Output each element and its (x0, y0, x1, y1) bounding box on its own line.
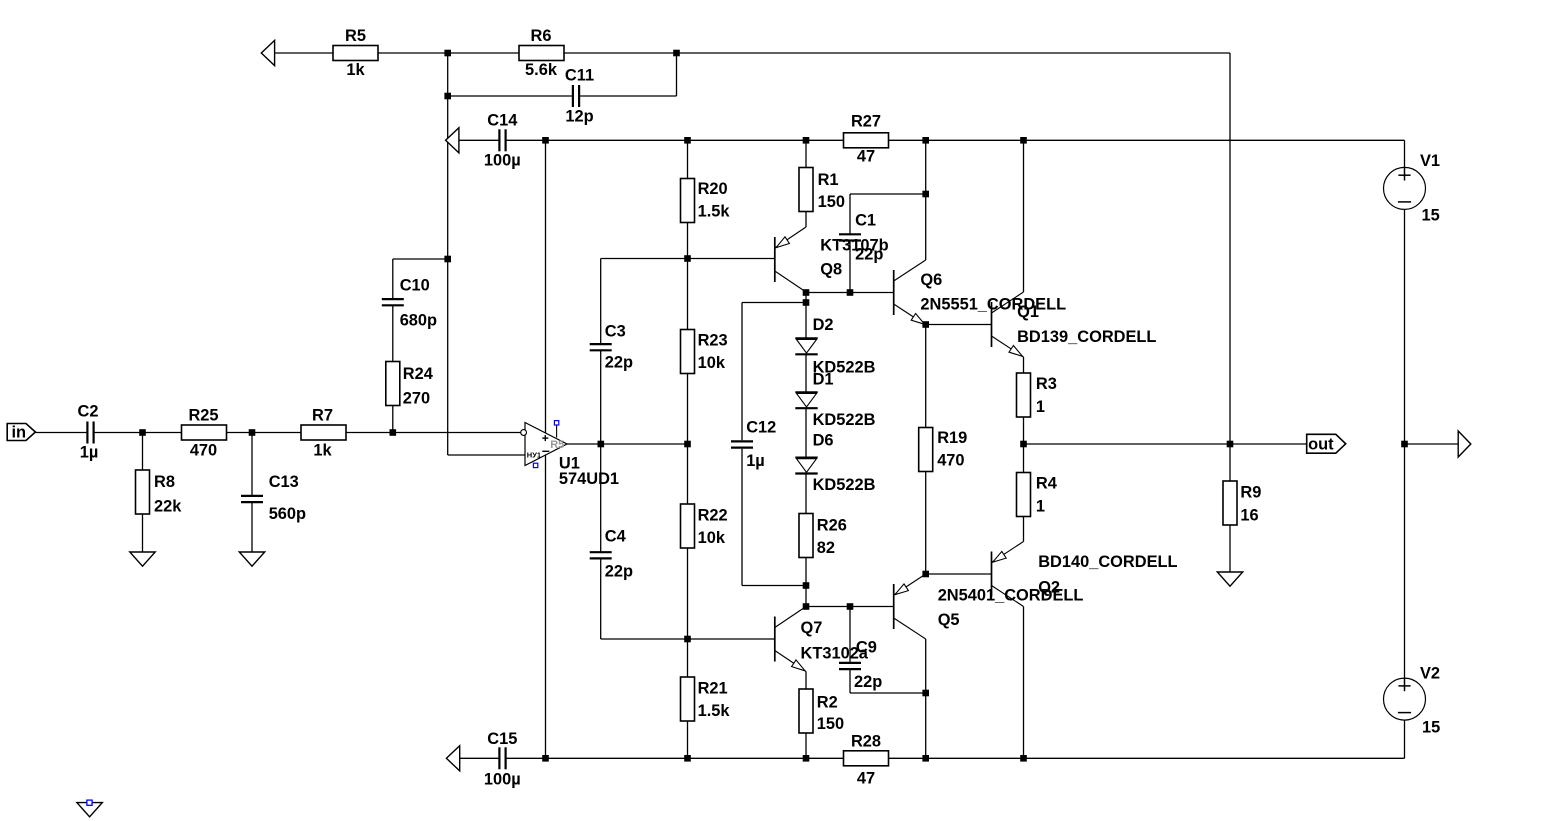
svg-text:V2: V2 (1420, 665, 1440, 683)
svg-text:C15: C15 (487, 730, 517, 748)
svg-text:C12: C12 (746, 419, 776, 437)
svg-text:C4: C4 (605, 528, 627, 546)
svg-text:R24: R24 (403, 365, 434, 383)
svg-text:R23: R23 (698, 332, 728, 350)
svg-text:R25: R25 (188, 407, 218, 425)
svg-text:2N5401_CORDELL: 2N5401_CORDELL (938, 587, 1084, 605)
svg-text:C13: C13 (269, 473, 299, 491)
svg-text:R5: R5 (345, 27, 366, 45)
svg-text:100µ: 100µ (484, 152, 521, 170)
svg-text:C14: C14 (487, 112, 518, 130)
svg-text:47: 47 (857, 770, 875, 788)
svg-text:R8: R8 (154, 473, 175, 491)
svg-text:R22: R22 (698, 507, 728, 525)
svg-text:R1: R1 (818, 171, 839, 189)
svg-text:82: 82 (817, 539, 835, 557)
svg-text:R9: R9 (1240, 484, 1261, 502)
svg-text:R26: R26 (817, 517, 847, 535)
svg-text:D6: D6 (813, 432, 834, 450)
svg-text:Q1: Q1 (1017, 303, 1039, 321)
svg-text:22p: 22p (605, 354, 633, 372)
svg-text:R7: R7 (312, 407, 333, 425)
svg-text:C3: C3 (605, 323, 626, 341)
svg-text:R21: R21 (698, 680, 728, 698)
svg-text:47: 47 (857, 148, 875, 166)
svg-text:Q8: Q8 (820, 261, 842, 279)
svg-text:D1: D1 (813, 371, 834, 389)
svg-text:BD140_CORDELL: BD140_CORDELL (1038, 553, 1177, 571)
svg-text:1: 1 (1036, 498, 1045, 516)
svg-text:470: 470 (937, 452, 964, 470)
svg-text:KT3102a: KT3102a (801, 645, 869, 663)
svg-text:1µ: 1µ (80, 444, 99, 462)
svg-text:R3: R3 (1036, 375, 1057, 393)
svg-text:10k: 10k (698, 354, 726, 372)
svg-text:R6: R6 (531, 27, 552, 45)
svg-text:150: 150 (817, 715, 844, 733)
svg-text:R20: R20 (698, 180, 728, 198)
svg-text:R27: R27 (851, 113, 881, 131)
svg-text:KD522B: KD522B (813, 476, 876, 494)
svg-text:R19: R19 (937, 429, 967, 447)
svg-text:1: 1 (1036, 398, 1045, 416)
svg-text:1k: 1k (346, 61, 365, 79)
svg-text:560p: 560p (269, 505, 306, 523)
svg-text:270: 270 (403, 390, 430, 408)
svg-text:15: 15 (1422, 207, 1440, 225)
svg-text:574UD1: 574UD1 (559, 470, 619, 488)
svg-text:НУ1: НУ1 (527, 451, 541, 460)
svg-text:1µ: 1µ (746, 452, 765, 470)
svg-text:V1: V1 (1420, 152, 1440, 170)
svg-text:C11: C11 (565, 67, 594, 85)
svg-text:1.5k: 1.5k (698, 203, 731, 221)
svg-text:100µ: 100µ (484, 771, 521, 789)
svg-text:R28: R28 (851, 733, 881, 751)
svg-text:R4: R4 (1036, 475, 1058, 493)
svg-text:22p: 22p (605, 563, 633, 581)
svg-text:R5: R5 (550, 439, 564, 451)
svg-text:12p: 12p (565, 108, 593, 126)
svg-text:150: 150 (818, 193, 845, 211)
svg-text:Q7: Q7 (801, 619, 823, 637)
svg-text:Q2: Q2 (1038, 579, 1060, 597)
svg-text:22p: 22p (854, 673, 882, 691)
svg-text:22k: 22k (154, 498, 182, 516)
svg-text:KD522B: KD522B (813, 411, 876, 429)
svg-text:R2: R2 (817, 694, 838, 712)
svg-text:Q5: Q5 (938, 611, 960, 629)
svg-text:5.6k: 5.6k (525, 61, 558, 79)
svg-text:BD139_CORDELL: BD139_CORDELL (1017, 328, 1156, 346)
svg-text:470: 470 (190, 442, 217, 460)
svg-text:C10: C10 (400, 277, 430, 295)
svg-text:2N5551_CORDELL: 2N5551_CORDELL (920, 296, 1066, 314)
svg-text:D2: D2 (813, 316, 834, 334)
svg-text:15: 15 (1422, 719, 1440, 737)
svg-text:1k: 1k (313, 442, 332, 460)
svg-text:KT3107b: KT3107b (820, 237, 888, 255)
svg-text:680p: 680p (400, 312, 437, 330)
svg-text:out: out (1308, 436, 1334, 454)
svg-text:1.5k: 1.5k (698, 702, 731, 720)
svg-text:C1: C1 (855, 212, 876, 230)
svg-text:10k: 10k (698, 529, 726, 547)
svg-text:in: in (12, 424, 27, 442)
svg-text:16: 16 (1240, 507, 1258, 525)
svg-text:C2: C2 (78, 403, 99, 421)
svg-text:Q6: Q6 (920, 271, 942, 289)
